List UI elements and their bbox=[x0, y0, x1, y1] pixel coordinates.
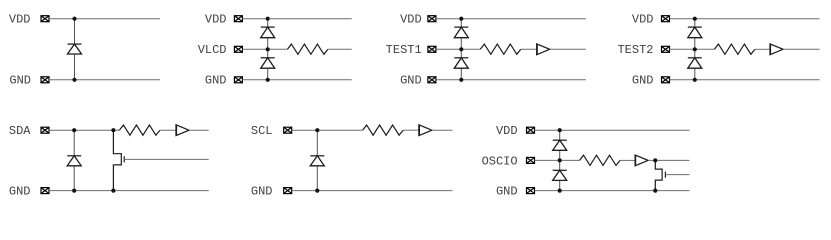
svg-text:GND: GND bbox=[205, 74, 227, 88]
wire GND rail c3 bbox=[436, 79, 586, 81]
wire GND rail c1 bbox=[49, 79, 160, 81]
diode D8 (anode bottom, cathode top) bbox=[67, 156, 81, 166]
terminal pad VDD4 bbox=[662, 16, 670, 22]
junction bbox=[653, 158, 657, 162]
diode D1 (anode bottom, cathode top) bbox=[68, 44, 82, 54]
wire buffer out c7 bbox=[648, 159, 689, 161]
wire R4 to buffer c5 bbox=[160, 129, 176, 131]
junction bbox=[459, 47, 463, 51]
diode D9 (anode bottom, cathode top) bbox=[310, 156, 324, 166]
wire vertical c3 seg2 bbox=[460, 38, 462, 58]
wire vertical c1 upper bbox=[74, 19, 76, 44]
diode D3 (anode bottom, cathode top) bbox=[261, 58, 275, 68]
wire VLCD rail right c2 bbox=[328, 48, 352, 50]
wire OSCIO rail left c7 bbox=[535, 159, 580, 161]
wire VDD rail c2 bbox=[242, 18, 351, 20]
resistor R1 bbox=[287, 44, 328, 54]
wire buffer out c4 bbox=[783, 48, 820, 50]
terminal pad GND1 bbox=[41, 77, 49, 83]
buffer U1 bbox=[537, 44, 550, 55]
terminal pad VDD7 bbox=[527, 127, 535, 133]
junction bbox=[653, 189, 657, 193]
terminal pad GND4 bbox=[662, 77, 670, 83]
junction bbox=[558, 128, 562, 132]
terminal pad SCL bbox=[284, 127, 292, 133]
svg-text:VDD: VDD bbox=[496, 124, 518, 138]
terminal pad GND3 bbox=[428, 77, 436, 83]
svg-text:SCL: SCL bbox=[251, 124, 273, 138]
wire vertical c3 seg3 bbox=[460, 68, 462, 80]
wire vertical c7 seg3 bbox=[559, 180, 561, 190]
wire GND rail c5 bbox=[49, 190, 209, 192]
junction bbox=[693, 17, 697, 21]
wire vertical c1 lower bbox=[74, 54, 76, 80]
wire R5 to buffer c6 bbox=[403, 129, 419, 131]
terminal pad VDD2 bbox=[234, 16, 242, 22]
diode D10 (anode bottom, cathode top) bbox=[553, 140, 567, 150]
wire VDD rail c1 bbox=[49, 18, 160, 20]
terminal pad GND5 bbox=[41, 188, 49, 194]
svg-text:GND: GND bbox=[9, 185, 31, 199]
wire TEST2 rail left c4 bbox=[670, 48, 715, 50]
terminal pad OSCIO bbox=[527, 157, 535, 163]
svg-text:OSCIO: OSCIO bbox=[482, 154, 518, 168]
junction bbox=[266, 47, 270, 51]
wire R2 to buffer c3 bbox=[521, 48, 537, 50]
junction bbox=[693, 78, 697, 82]
junction bbox=[266, 78, 270, 82]
wire vertical c3 seg1 bbox=[460, 19, 462, 27]
terminal pad TEST1 bbox=[428, 46, 436, 52]
buffer U2 bbox=[770, 44, 783, 55]
terminal pad SDA bbox=[41, 127, 49, 133]
wire SDA rail c5 bbox=[49, 129, 119, 131]
junction bbox=[72, 128, 76, 132]
svg-text:SDA: SDA bbox=[9, 124, 31, 138]
transistor Q2 (NMOS) bbox=[655, 160, 665, 190]
wire vertical c4 seg1 bbox=[694, 19, 696, 27]
wire vertical c4 seg3 bbox=[694, 68, 696, 80]
svg-text:GND: GND bbox=[400, 74, 422, 88]
wire buffer out c5 bbox=[189, 129, 209, 131]
svg-text:VDD: VDD bbox=[205, 13, 227, 27]
resistor R2 bbox=[480, 44, 521, 54]
diode D5 (anode bottom, cathode top) bbox=[454, 58, 468, 68]
junction bbox=[315, 128, 319, 132]
svg-text:VDD: VDD bbox=[632, 13, 654, 27]
wire GND rail c6 bbox=[292, 190, 453, 192]
buffer U3 bbox=[176, 125, 189, 136]
junction bbox=[693, 47, 697, 51]
junction bbox=[72, 78, 76, 82]
wire vertical c5 lower bbox=[73, 166, 75, 191]
junction bbox=[459, 78, 463, 82]
svg-text:GND: GND bbox=[9, 74, 31, 88]
wire vertical c7 seg2 bbox=[559, 150, 561, 170]
junction bbox=[315, 189, 319, 193]
wire vertical c2 seg2 bbox=[267, 38, 269, 58]
wire TEST1 rail left c3 bbox=[436, 48, 480, 50]
wire R6 to buffer c7 bbox=[620, 159, 635, 161]
diode D7 (anode bottom, cathode top) bbox=[688, 58, 702, 68]
wire vertical c5 upper bbox=[73, 130, 75, 156]
wire SCL rail c6 bbox=[292, 129, 363, 131]
wire VDD rail c7 bbox=[535, 129, 690, 131]
diode D11 (anode bottom, cathode top) bbox=[553, 170, 567, 180]
terminal pad TEST2 bbox=[662, 46, 670, 52]
wire gate c7 bbox=[665, 174, 689, 176]
terminal pad VLCD bbox=[234, 46, 242, 52]
junction bbox=[266, 17, 270, 21]
junction bbox=[459, 17, 463, 21]
junction bbox=[558, 158, 562, 162]
wire vertical c4 seg2 bbox=[694, 38, 696, 58]
svg-text:GND: GND bbox=[632, 74, 654, 88]
wire buffer out c3 bbox=[550, 48, 586, 50]
wire vertical c6 upper bbox=[316, 130, 318, 156]
terminal pad VDD3 bbox=[428, 16, 436, 22]
wire GND rail c7 bbox=[535, 190, 690, 192]
wire VLCD rail left c2 bbox=[242, 48, 287, 50]
wire GND rail c4 bbox=[670, 79, 820, 81]
diode D2 (anode bottom, cathode top) bbox=[261, 27, 275, 38]
diode D6 (anode bottom, cathode top) bbox=[688, 27, 702, 38]
resistor R5 bbox=[363, 125, 404, 135]
svg-text:TEST1: TEST1 bbox=[386, 43, 422, 57]
svg-text:VDD: VDD bbox=[400, 13, 422, 27]
wire gate c5 bbox=[124, 158, 209, 160]
terminal pad GND2 bbox=[234, 77, 242, 83]
wire vertical c2 seg3 bbox=[267, 68, 269, 80]
junction bbox=[72, 17, 76, 21]
svg-text:GND: GND bbox=[496, 185, 518, 199]
terminal pad GND7 bbox=[527, 188, 535, 194]
wire vertical c7 seg1 bbox=[559, 130, 561, 140]
wire VDD rail c3 bbox=[436, 18, 586, 20]
resistor R6 bbox=[580, 155, 621, 165]
wire VDD rail c4 bbox=[670, 18, 820, 20]
junction bbox=[111, 189, 115, 193]
wire vertical c6 lower bbox=[316, 166, 318, 191]
svg-text:GND: GND bbox=[251, 185, 273, 199]
transistor Q1 (NMOS) bbox=[113, 130, 124, 190]
resistor R4 bbox=[119, 125, 159, 135]
wire buffer out c6 bbox=[432, 129, 453, 131]
junction bbox=[558, 189, 562, 193]
junction bbox=[72, 189, 76, 193]
junction bbox=[111, 128, 115, 132]
resistor R3 bbox=[714, 44, 755, 54]
terminal pad GND6 bbox=[284, 188, 292, 194]
buffer U5 bbox=[635, 155, 648, 166]
diode D4 (anode bottom, cathode top) bbox=[454, 27, 468, 38]
wire R3 to buffer c4 bbox=[755, 48, 770, 50]
svg-text:VDD: VDD bbox=[9, 13, 31, 27]
terminal pad VDD1 bbox=[41, 16, 49, 22]
wire GND rail c2 bbox=[242, 79, 351, 81]
buffer U4 bbox=[419, 125, 432, 136]
svg-text:VLCD: VLCD bbox=[198, 43, 227, 57]
wire vertical c2 seg1 bbox=[267, 19, 269, 27]
svg-text:TEST2: TEST2 bbox=[617, 43, 653, 57]
